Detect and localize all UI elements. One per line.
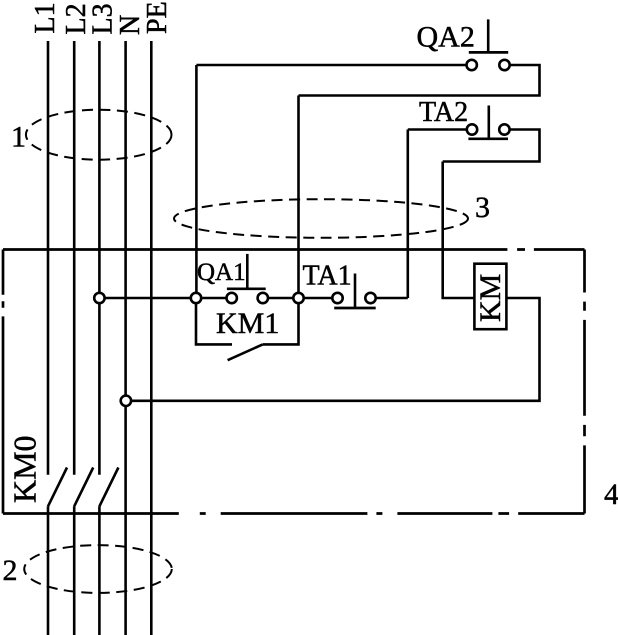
wire control row from L3 tap to QA1 bbox=[99, 297, 226, 300]
wire KM1 branch right side bbox=[263, 303, 299, 344]
ellipse 1 (incoming supply group) bbox=[26, 110, 172, 160]
contact KM1 moving blade bbox=[228, 344, 263, 360]
ellipse 3 (remote control lines group) bbox=[174, 199, 468, 238]
contactor KM0 pole 2 bbox=[74, 468, 93, 507]
wire TA2 left lead bbox=[408, 128, 467, 131]
pushbutton QA2 plunger bbox=[487, 19, 490, 52]
node circle: N return tap bbox=[121, 396, 131, 406]
svg-text:L3: L3 bbox=[88, 3, 119, 34]
wire TA2 branch down to KM coil lead bbox=[443, 162, 475, 299]
wire QA2 out to corner bbox=[299, 65, 540, 96]
coil KM box bbox=[474, 264, 506, 330]
wire QA2 branch riser (left) bbox=[195, 65, 198, 293]
svg-text:1: 1 bbox=[11, 121, 26, 154]
pushbutton TA2 plunger bbox=[487, 106, 490, 139]
enclosure box 4 top edge (dash-dot) bbox=[3, 248, 585, 251]
pushbutton TA2 contact bar bbox=[468, 137, 508, 140]
node circle: junction QA2 branch right bbox=[293, 293, 303, 303]
contactor KM0 pole 3 bbox=[99, 468, 118, 507]
terminal circle QA2 right bbox=[499, 60, 509, 70]
terminal circle TA1 left bbox=[332, 293, 342, 303]
terminal circle TA2 right bbox=[499, 124, 509, 134]
wire riser TA1-right up to TA2-left bbox=[406, 130, 409, 299]
wire between QA1 and TA1 bbox=[268, 297, 332, 300]
wire PE line bbox=[150, 41, 153, 635]
svg-text:PE: PE bbox=[142, 1, 173, 34]
enclosure box 4 right edge (dash-dot) bbox=[583, 250, 586, 514]
svg-text:TA1: TA1 bbox=[303, 261, 352, 292]
node circle: L3 tap bbox=[94, 293, 104, 303]
svg-text:TA2: TA2 bbox=[419, 97, 468, 128]
wire TA1 right to riser bbox=[376, 297, 408, 300]
pushbutton QA2 contact bar bbox=[469, 51, 508, 54]
wire L3 line bbox=[98, 41, 101, 635]
svg-text:KM0: KM0 bbox=[7, 435, 43, 503]
wire TA2 out to corner bbox=[443, 130, 540, 162]
svg-text:3: 3 bbox=[475, 191, 490, 224]
terminal circle TA1 right bbox=[365, 293, 375, 303]
wire KM coil right lead to N return bbox=[131, 298, 539, 401]
enclosure box 4 left edge (dash-dot) bbox=[2, 250, 5, 514]
wire QA2 branch riser (right) bbox=[297, 96, 300, 293]
wire L2 line bbox=[73, 41, 76, 635]
wire QA2 top feed bbox=[196, 64, 466, 67]
contactor KM0 pole 1 bbox=[48, 468, 67, 507]
enclosure box 4 bottom edge (dash-dot) bbox=[3, 512, 585, 515]
terminal circle TA2 left bbox=[467, 124, 477, 134]
svg-text:QA2: QA2 bbox=[417, 21, 475, 54]
svg-text:2: 2 bbox=[3, 554, 18, 587]
pushbutton QA1 contact bar bbox=[227, 287, 266, 290]
svg-text:QA1: QA1 bbox=[197, 259, 246, 286]
pushbutton TA1 contact bar bbox=[334, 307, 376, 310]
svg-text:KM: KM bbox=[474, 274, 507, 322]
node circle: junction QA2 branch left bbox=[191, 293, 201, 303]
terminal circle QA2 left bbox=[467, 60, 477, 70]
terminal circle QA1 right bbox=[258, 293, 268, 303]
svg-text:KM1: KM1 bbox=[216, 307, 279, 340]
wire L1 line bbox=[47, 41, 50, 635]
svg-text:4: 4 bbox=[604, 478, 618, 511]
wire KM1 branch left drop bbox=[196, 303, 232, 344]
pushbutton TA1 plunger bbox=[354, 274, 357, 309]
wire N line bbox=[124, 41, 127, 635]
terminal circle QA1 left bbox=[227, 293, 237, 303]
pushbutton QA1 plunger bbox=[246, 254, 249, 289]
svg-text:L1: L1 bbox=[30, 2, 61, 33]
ellipse 2 (outgoing cable group) bbox=[24, 545, 172, 593]
